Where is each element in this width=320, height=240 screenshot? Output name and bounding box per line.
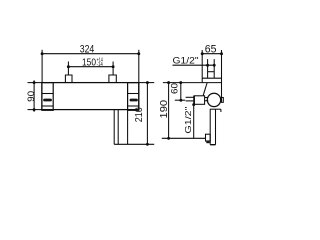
dimension 60 bottom extension (175, 99, 185, 101)
nut neck bottom line (205, 100, 209, 102)
dimension 150 left dot (67, 65, 70, 68)
bottom outlet line (114, 143, 154, 145)
supply pipe crossbar (208, 71, 215, 73)
mixer body outline (front view) (42, 83, 139, 110)
G1/2 top leader line (173, 64, 216, 66)
wall bracket right edge (side view) (221, 50, 223, 98)
dimension 150 right dot (112, 65, 115, 68)
right handle inner line upper (128, 93, 139, 95)
nut neck top line (205, 97, 209, 99)
dimension 90 line (33, 80, 35, 112)
drop bar bottom edge (210, 144, 215, 146)
shoulder right vertical (220, 109, 222, 112)
dimension 190 top dot (167, 81, 170, 84)
shoulder below circle (210, 108, 221, 110)
dimension 324 right dot (137, 52, 140, 55)
dimension 90 top extension (28, 82, 42, 84)
dimension 190 bottom dot (167, 137, 170, 140)
hose nut left face emphasis (193, 96, 195, 105)
hose tail bottom line (186, 100, 194, 102)
drop bar right edge (side view) (215, 109, 217, 145)
svg-text:150: 150 (82, 57, 96, 68)
svg-text:190: 190 (158, 100, 170, 119)
right handle (128, 83, 139, 111)
dimension 60 line (180, 83, 182, 101)
outlet pipe right edge (front view) (117, 110, 119, 145)
G1/2 leader dot A (206, 64, 209, 67)
svg-text:G1/2": G1/2" (173, 56, 199, 66)
dimension 90 bottom dot (33, 108, 36, 111)
right connection stem (112, 62, 114, 76)
dimension 190 line (168, 83, 170, 139)
left handle inner line upper (42, 93, 53, 95)
G1/2 rotated leader dot (192, 103, 195, 106)
dimension 65 line (202, 53, 221, 55)
svg-text:324: 324 (80, 43, 95, 55)
svg-text:65: 65 (205, 43, 217, 55)
thermostat knob circle (side view) (207, 93, 220, 106)
svg-text:60: 60 (170, 83, 181, 94)
holder attachment foot (206, 141, 209, 143)
dimension 210 line (146, 83, 148, 145)
right handle drop line (127, 110, 129, 144)
dimension 150 line (68, 66, 113, 68)
right handle grip slot (130, 99, 138, 102)
knob tab right of circle (222, 98, 224, 103)
svg-text:90: 90 (26, 91, 37, 102)
right wall connection block (109, 75, 116, 83)
dimension 60 top dot (179, 81, 182, 84)
svg-text:-14: -14 (97, 62, 104, 68)
hose nut (side view) (194, 96, 205, 105)
right handle inner line lower (128, 105, 139, 107)
dimension 65 left dot (201, 52, 204, 55)
wall bracket left edge (side view) (201, 50, 203, 83)
left handle (42, 83, 53, 111)
G1/2 rotated leader line (193, 104, 195, 138)
wall bracket face line (202, 77, 221, 79)
dimension 90 bottom extension (28, 109, 42, 111)
left handle inner line lower (42, 105, 53, 107)
dimension 210 top dot (146, 81, 149, 84)
dimension 60 bottom dot (179, 99, 182, 102)
hose tail top line (186, 96, 194, 98)
dimension 324 right extension (138, 50, 140, 83)
dimension 65 right dot (220, 52, 223, 55)
reference line through 190 and 60 dots (163, 82, 222, 84)
supply pipe B (side view) (213, 59, 215, 78)
dimension 324 left extension (41, 50, 43, 83)
G1/2 leader dot B (213, 64, 216, 67)
left handle grip slot (43, 99, 52, 102)
drop bar left edge (side view) (209, 109, 211, 145)
dimension 324 left dot (41, 52, 44, 55)
dimension 324 line (42, 53, 139, 55)
svg-text:210: 210 (133, 107, 145, 122)
dimension 90 top dot (33, 81, 36, 84)
supply pipe A (side view) (207, 59, 209, 78)
holder attachment on bar (206, 134, 211, 141)
svg-text:G1/2": G1/2" (183, 107, 193, 134)
dimension 210 top extension (139, 82, 154, 84)
dimension 190 bottom extension (162, 137, 206, 139)
left wall connection block (65, 75, 72, 83)
bracket diagonal (203, 83, 207, 96)
outlet pipe left edge (front view) (113, 110, 115, 145)
dimension 210 bottom dot (146, 143, 149, 146)
left connection stem (67, 62, 69, 76)
